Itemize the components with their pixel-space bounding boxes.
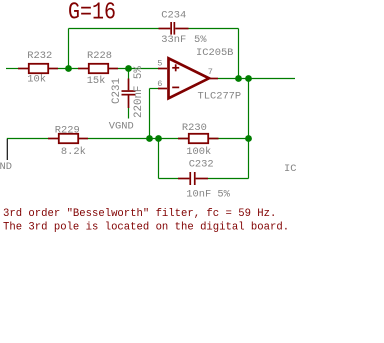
junction output-feedback <box>245 75 252 82</box>
junction node A <box>65 65 72 72</box>
wire node B down to C231 <box>128 69 130 79</box>
wire feedback vertical from output to R230/C232 <box>248 79 250 179</box>
wire R228 to op-amp pin 5 <box>118 68 159 70</box>
svg-text:R228: R228 <box>87 50 112 62</box>
junction C232 branch <box>155 135 162 142</box>
svg-text:6: 6 <box>157 79 162 89</box>
resistor R230 <box>178 134 219 143</box>
wire vertical down to output net <box>238 29 240 79</box>
wire op-amp pin 6 stub <box>150 88 159 90</box>
svg-text:IC205B: IC205B <box>196 47 233 59</box>
svg-text:8.2k: 8.2k <box>61 146 86 158</box>
capacitor C234 <box>159 22 189 35</box>
wire output net <box>218 78 295 80</box>
svg-text:3rd order "Besselworth" filter: 3rd order "Besselworth" filter, fc = 59 … <box>3 208 276 220</box>
svg-text:C231: C231 <box>111 78 123 104</box>
resistor R228 <box>78 64 118 73</box>
op-amp U1 IC205B <box>158 58 218 98</box>
svg-text:C234: C234 <box>161 10 186 22</box>
svg-text:TLC277P: TLC277P <box>198 91 242 103</box>
svg-text:10nF: 10nF <box>186 188 211 200</box>
wire input net left to R232 <box>6 68 18 70</box>
svg-text:VGND: VGND <box>109 120 134 132</box>
wire R229 to R230 <box>88 138 249 140</box>
resistor R232 <box>18 64 58 73</box>
capacitor C232 <box>178 172 208 185</box>
svg-text:15k: 15k <box>87 75 106 87</box>
wire C232 row right <box>208 178 249 180</box>
svg-text:The 3rd pole is located on the: The 3rd pole is located on the digital b… <box>3 221 289 233</box>
junction R230 right <box>245 135 252 142</box>
junction node B <box>125 65 132 72</box>
svg-text:100k: 100k <box>186 146 211 158</box>
wire pin 6 vertical down <box>149 89 151 139</box>
wire C232 row left <box>159 178 179 180</box>
svg-text:10k: 10k <box>27 74 46 86</box>
svg-text:5%: 5% <box>217 188 230 200</box>
svg-text:C232: C232 <box>189 158 214 170</box>
svg-text:220nF 5%: 220nF 5% <box>133 66 145 118</box>
node AGND stub <box>6 139 8 160</box>
svg-text:IC: IC <box>284 163 296 175</box>
wire top horizontal to C234 <box>69 28 159 30</box>
svg-text:G=16: G=16 <box>68 0 116 27</box>
svg-text:R232: R232 <box>27 50 52 62</box>
svg-text:5%: 5% <box>194 34 207 46</box>
wire feedback vertical up from node A <box>68 29 70 69</box>
wire R232 to R228 <box>58 68 78 70</box>
capacitor C231 <box>122 79 136 109</box>
wire C231 bottom to VGND <box>128 108 130 119</box>
junction output-C234 <box>235 75 242 82</box>
svg-text:R230: R230 <box>182 122 207 134</box>
wire AGND to R229 <box>7 138 48 140</box>
svg-text:R229: R229 <box>55 125 80 137</box>
wire C234 to right corner <box>189 28 239 30</box>
svg-text:ND: ND <box>0 161 12 173</box>
svg-text:7: 7 <box>208 67 213 77</box>
resistor R229 <box>48 134 88 143</box>
svg-text:33nF: 33nF <box>161 34 186 46</box>
junction pin6-feedback <box>146 135 153 142</box>
svg-text:5: 5 <box>157 59 162 69</box>
wire C232 left vertical <box>158 139 160 179</box>
